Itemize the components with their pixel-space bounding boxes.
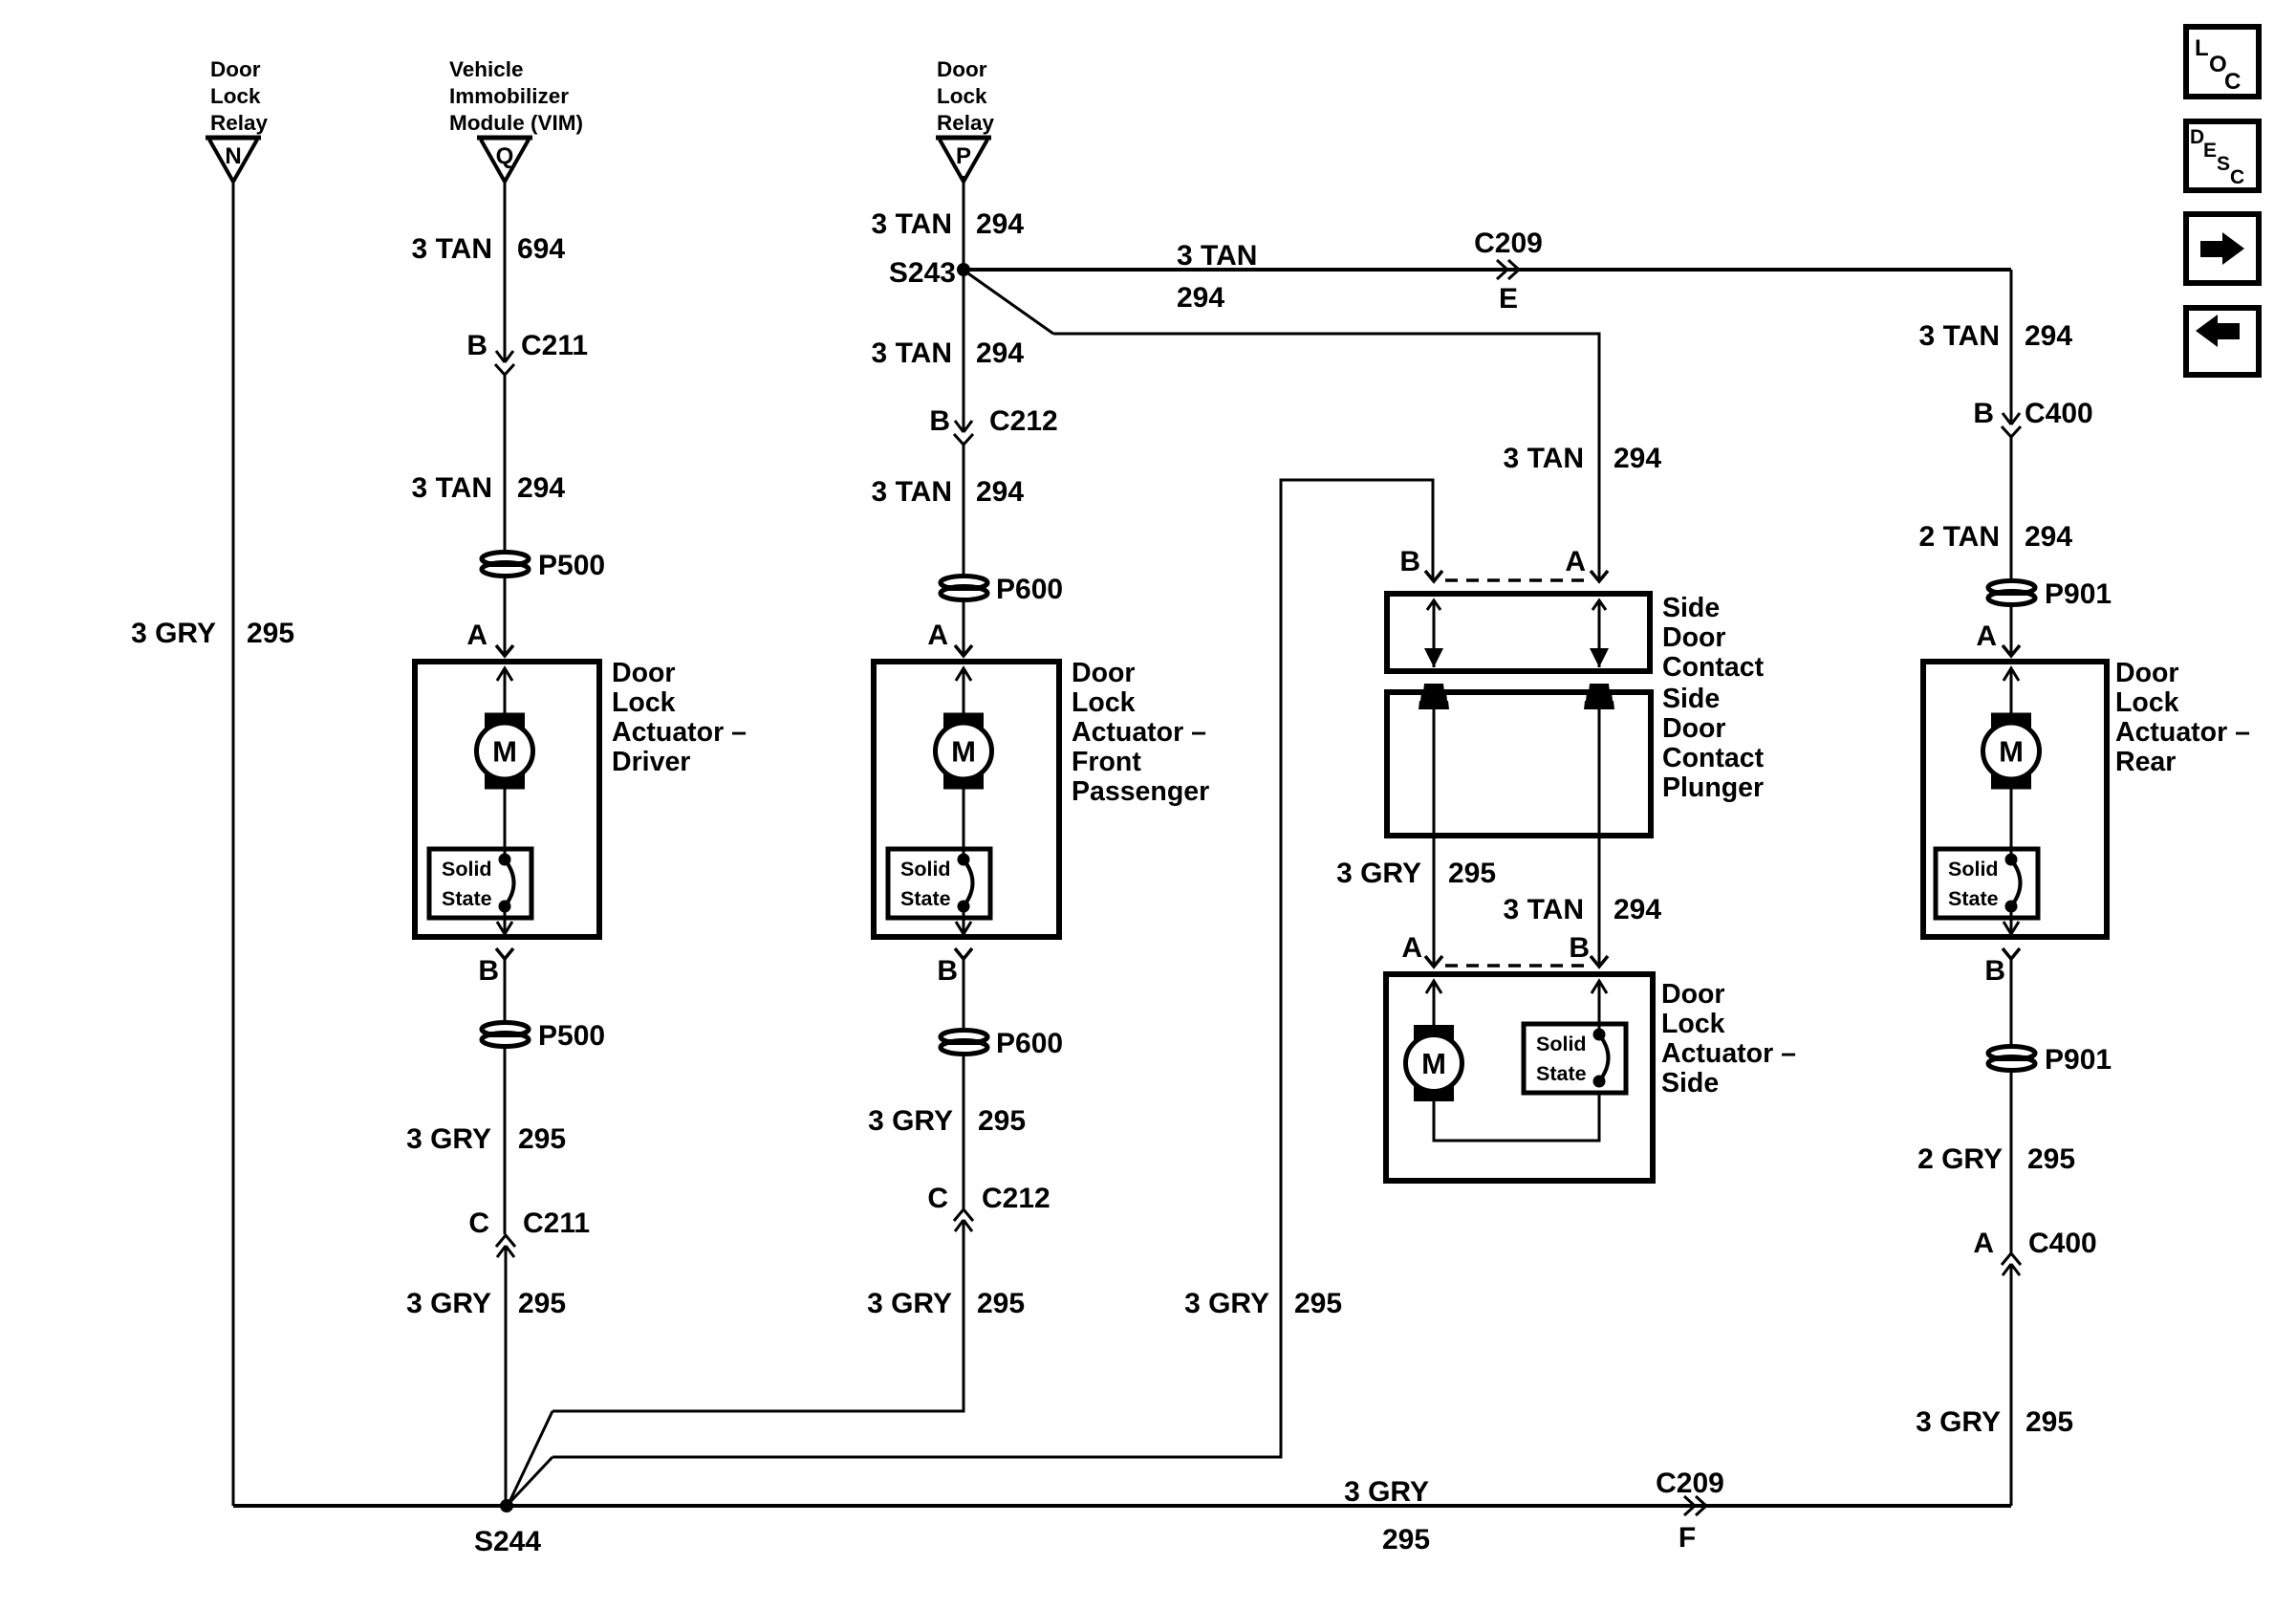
svg-text:3 TAN: 3 TAN [412, 233, 492, 265]
label: Side Door Contact name [1662, 593, 1765, 683]
label: Side Door Contact Plunger name [1662, 684, 1765, 803]
svg-text:Actuator –: Actuator – [1072, 717, 1206, 748]
wire P600 to actuator pin A (passenger) [963, 599, 965, 656]
svg-text:3 GRY: 3 GRY [1336, 858, 1421, 889]
wire side actuator B to solid state [1598, 981, 1601, 1034]
connector C400 pin A inline [2002, 1253, 2021, 1275]
dashed connector line (side door contact) [1445, 578, 1588, 582]
svg-text:Lock: Lock [210, 84, 261, 108]
svg-text:A: A [1973, 1228, 1994, 1259]
svg-text:294: 294 [1614, 443, 1661, 474]
svg-text:3 GRY: 3 GRY [131, 618, 216, 649]
svg-text:P901: P901 [2045, 578, 2112, 610]
wire S243 to C209 E (3 TAN 294) [964, 268, 2011, 272]
svg-text:Door: Door [1072, 658, 1136, 688]
wire bottom trunk (3 GRY 295) to C209 F [233, 1504, 2011, 1508]
wire plunger to side actuator A (3 GRY 295) [1433, 707, 1436, 967]
component box Door Lock Actuator - Rear [1923, 662, 2107, 937]
svg-text:D: D [2190, 126, 2204, 148]
splice S244 [500, 1499, 513, 1512]
svg-text:Rear: Rear [2115, 747, 2176, 777]
svg-text:C212: C212 [989, 405, 1058, 437]
component box Side Door Contact Plunger [1387, 692, 1651, 836]
connector C400 pin B inline [2002, 413, 2021, 437]
wire C212 to P600 (3 TAN 294) [963, 445, 965, 577]
svg-text:P600: P600 [996, 1028, 1063, 1059]
svg-text:3 TAN: 3 TAN [1177, 240, 1257, 272]
svg-text:3 TAN: 3 TAN [1504, 894, 1584, 925]
svg-text:Plunger: Plunger [1662, 772, 1764, 803]
svg-text:694: 694 [517, 233, 565, 265]
pin chevron B side contact [1425, 571, 1442, 581]
svg-text:295: 295 [518, 1288, 566, 1319]
connector C212 pin B inline [954, 421, 973, 445]
svg-text:295: 295 [1294, 1288, 1342, 1319]
svg-text:S: S [2217, 153, 2230, 175]
svg-text:294: 294 [2025, 521, 2072, 553]
svg-text:Door: Door [210, 57, 261, 81]
wire C400 to P901 (2 TAN 294) [2010, 437, 2013, 581]
component box Side Door Contact [1387, 594, 1650, 671]
svg-text:A: A [1565, 546, 1586, 577]
wire Q to C211 (3 TAN 694) [504, 182, 507, 360]
splice S243 [957, 263, 970, 276]
svg-text:3 GRY: 3 GRY [1344, 1476, 1429, 1508]
svg-text:Lock: Lock [1072, 687, 1136, 718]
label: Door Lock Relay (left) [210, 57, 269, 135]
legend box arrow right [2186, 214, 2259, 283]
svg-text:C212: C212 [982, 1183, 1051, 1214]
pin chevron A driver [496, 645, 513, 656]
svg-text:294: 294 [976, 337, 1024, 369]
svg-text:295: 295 [2025, 1406, 2073, 1438]
svg-text:Actuator –: Actuator – [612, 717, 747, 748]
svg-text:P600: P600 [996, 574, 1063, 605]
svg-text:3 GRY: 3 GRY [1184, 1288, 1269, 1319]
svg-text:Side: Side [1662, 593, 1720, 623]
svg-text:3 TAN: 3 TAN [872, 208, 952, 240]
pin chevron A side contact [1591, 571, 1608, 581]
connector P500 (upper) [482, 553, 529, 577]
motor M (Door Lock Actuator - Driver) [477, 713, 533, 790]
svg-text:Door: Door [1662, 713, 1726, 744]
wire side contact pin B loop to S244 (3 GRY 295) [552, 480, 1433, 1457]
connector triangle P (Door Lock Relay) [936, 138, 991, 182]
svg-text:C209: C209 [1474, 228, 1543, 259]
svg-text:Immobilizer: Immobilizer [449, 84, 569, 108]
wire P500 to C211 C (3 GRY 295) [504, 1046, 507, 1234]
component box Door Lock Actuator - Side [1386, 974, 1653, 1181]
wire motor loop to solid state (side actuator) [1434, 1094, 1599, 1141]
label: Door Lock Actuator - Rear name [2115, 658, 2250, 777]
contact arrow right [1590, 600, 1609, 667]
svg-text:A: A [1976, 620, 1997, 652]
wire diagonal into splice S244 (passenger) [509, 1411, 552, 1504]
wire passenger B to P600 lower [963, 959, 965, 1031]
svg-text:Door: Door [1661, 979, 1725, 1010]
svg-text:Door: Door [612, 658, 676, 688]
svg-text:A: A [466, 620, 487, 651]
legend box arrow left [2186, 308, 2259, 375]
pin chevron B side actuator [1591, 956, 1608, 967]
pin chevron B rear [2003, 948, 2020, 959]
legend box DESC [2186, 121, 2259, 190]
svg-text:295: 295 [1382, 1524, 1430, 1556]
wire diagonal from S243 [965, 272, 1053, 334]
connector C209 chevron E [1497, 260, 1519, 279]
svg-text:Passenger: Passenger [1072, 776, 1209, 807]
svg-text:2 TAN: 2 TAN [1919, 521, 2000, 553]
connector triangle Q (VIM) [477, 138, 532, 182]
svg-text:3 GRY: 3 GRY [1916, 1406, 2001, 1438]
svg-text:C: C [468, 1207, 489, 1239]
svg-text:3 TAN: 3 TAN [872, 476, 952, 508]
svg-text:B: B [1984, 955, 2005, 987]
connector P600 (lower) [941, 1031, 987, 1055]
svg-text:Vehicle: Vehicle [449, 57, 524, 81]
wire N vertical (3 GRY 295) [232, 182, 235, 1506]
label: Vehicle Immobilizer Module (VIM) [449, 57, 583, 135]
svg-text:F: F [1679, 1522, 1696, 1554]
wire plunger to side actuator B (3 TAN 294) [1598, 707, 1601, 967]
svg-text:B: B [1569, 932, 1590, 964]
svg-text:3 TAN: 3 TAN [1504, 443, 1584, 474]
pin chevron A passenger [955, 645, 972, 656]
svg-text:C: C [2224, 69, 2241, 95]
svg-text:Q: Q [496, 143, 514, 169]
svg-text:Lock: Lock [612, 687, 676, 718]
motor M (side actuator) [1406, 1025, 1462, 1101]
connector C211 pin B inline [495, 351, 514, 375]
svg-text:B: B [929, 405, 950, 437]
component box Door Lock Actuator - Driver [415, 662, 599, 937]
svg-text:P500: P500 [538, 1020, 605, 1052]
svg-text:Side: Side [1661, 1068, 1719, 1099]
svg-text:E: E [2203, 140, 2217, 162]
solid state switch (Door Lock Actuator - Rear) [1936, 849, 2038, 918]
svg-text:3 GRY: 3 GRY [406, 1288, 491, 1319]
svg-text:A: A [927, 620, 948, 651]
svg-text:294: 294 [2025, 320, 2072, 352]
svg-text:Contact: Contact [1662, 652, 1765, 683]
svg-text:Lock: Lock [1661, 1009, 1725, 1039]
svg-text:295: 295 [1448, 858, 1496, 889]
svg-text:B: B [937, 955, 958, 987]
contact arrow left [1424, 600, 1443, 667]
label: Door Lock Actuator - Side name [1661, 979, 1796, 1099]
connector C211 pin C inline [496, 1235, 515, 1257]
wire trunk to side door contact pin A (3 TAN 294) [1053, 334, 1599, 581]
svg-text:E: E [1499, 283, 1518, 315]
svg-text:C211: C211 [523, 1207, 590, 1239]
connector C212 pin C inline [954, 1209, 973, 1231]
svg-text:C400: C400 [2028, 1228, 2097, 1259]
pin chevron B passenger [955, 948, 972, 959]
wire diagonal into splice S244 (side branch) [508, 1457, 552, 1505]
dashed connector line (side actuator) [1445, 964, 1588, 968]
svg-text:2 GRY: 2 GRY [1917, 1143, 2003, 1175]
svg-text:294: 294 [1614, 894, 1661, 925]
svg-text:294: 294 [976, 476, 1024, 508]
svg-text:P901: P901 [2045, 1044, 2112, 1076]
connector P600 (upper) [941, 577, 987, 600]
plunger contact left [1419, 684, 1449, 709]
svg-text:295: 295 [518, 1123, 566, 1155]
svg-text:3 TAN: 3 TAN [412, 472, 492, 504]
svg-text:Module (VIM): Module (VIM) [449, 111, 583, 135]
connector C209 chevron F [1684, 1496, 1706, 1515]
svg-text:Relay: Relay [937, 111, 995, 135]
svg-text:Actuator –: Actuator – [1661, 1038, 1796, 1069]
svg-text:3 GRY: 3 GRY [868, 1105, 953, 1137]
connector P901 (upper) [1988, 581, 2035, 605]
svg-text:C209: C209 [1656, 1468, 1724, 1499]
wire P500 to actuator pin A [504, 576, 507, 656]
connector P901 (lower) [1988, 1047, 2035, 1071]
svg-text:B: B [1399, 546, 1420, 577]
wire C400 A down to bottom trunk (3 GRY 295) [2010, 1264, 2013, 1506]
svg-text:C: C [2230, 166, 2244, 188]
pin chevron B driver [496, 948, 513, 959]
svg-text:Door: Door [2115, 658, 2179, 688]
svg-text:3 GRY: 3 GRY [867, 1288, 952, 1319]
connector triangle N (Door Lock Relay) [206, 138, 261, 182]
svg-text:Side: Side [1662, 684, 1720, 714]
label: Door Lock Actuator - Front Passenger name [1072, 658, 1209, 807]
svg-text:295: 295 [2027, 1143, 2075, 1175]
svg-text:L: L [2195, 35, 2209, 61]
svg-text:S243: S243 [889, 257, 956, 289]
svg-text:294: 294 [976, 208, 1024, 240]
wire P triangle through S243 to C212 (3 TAN 294) [963, 176, 965, 432]
wire P901 to C400 A (2 GRY 295) [2010, 1070, 2013, 1253]
wire P901 to rear actuator pin A [2010, 604, 2013, 656]
svg-text:P500: P500 [538, 550, 605, 581]
svg-text:B: B [466, 330, 487, 361]
pin chevron A rear [2003, 645, 2020, 656]
svg-text:295: 295 [978, 1105, 1026, 1137]
label: Door Lock Relay (middle) [937, 57, 995, 135]
svg-text:B: B [478, 955, 499, 987]
wire P600 to C212 C (3 GRY 295) [963, 1054, 965, 1208]
wire C209 trunk down to C400 B (3 TAN 294) [2010, 270, 2013, 424]
svg-text:3 TAN: 3 TAN [872, 337, 952, 369]
svg-text:Door: Door [1662, 622, 1726, 653]
svg-text:Front: Front [1072, 747, 1141, 777]
motor M (Door Lock Actuator - Front Passenger) [936, 713, 992, 790]
svg-text:B: B [1973, 398, 1994, 429]
solid state switch (side actuator) [1524, 1024, 1626, 1093]
svg-text:Lock: Lock [2115, 687, 2179, 718]
svg-text:A: A [1401, 932, 1422, 964]
component box Door Lock Actuator - Front Passenger [874, 662, 1059, 937]
wire side actuator A to motor [1433, 981, 1436, 1025]
svg-text:C211: C211 [521, 330, 588, 361]
svg-text:C400: C400 [2025, 398, 2093, 429]
solid state switch (Door Lock Actuator - Front Passenger) [888, 849, 990, 918]
svg-text:3 TAN: 3 TAN [1919, 320, 2000, 352]
solid state switch (Door Lock Actuator - Driver) [429, 849, 531, 918]
wire C211 to P500 (3 TAN 294) [504, 375, 507, 553]
label: Door Lock Actuator - Driver name [612, 658, 747, 777]
svg-text:C: C [927, 1183, 948, 1214]
svg-text:294: 294 [517, 472, 565, 504]
wire rear B to P901 lower [2010, 959, 2013, 1047]
wire driver B to P500 lower [504, 959, 507, 1023]
svg-text:S244: S244 [474, 1526, 541, 1557]
wire C211 C to splice S244 (3 GRY 295) [505, 1246, 508, 1506]
connector P500 (lower) [482, 1023, 529, 1047]
svg-text:Actuator –: Actuator – [2115, 717, 2250, 748]
svg-text:Relay: Relay [210, 111, 269, 135]
svg-text:295: 295 [247, 618, 294, 649]
svg-text:Contact: Contact [1662, 743, 1765, 773]
svg-text:294: 294 [1177, 282, 1224, 314]
wire C212 C down and left to S244 [552, 1220, 964, 1411]
svg-text:3 GRY: 3 GRY [406, 1123, 491, 1155]
svg-text:N: N [225, 143, 241, 169]
svg-text:Driver: Driver [612, 747, 690, 777]
plunger contact right [1584, 684, 1614, 709]
motor M (Door Lock Actuator - Rear) [1983, 713, 2040, 790]
svg-text:Lock: Lock [937, 84, 987, 108]
legend box LOC [2186, 27, 2259, 97]
svg-text:Door: Door [937, 57, 987, 81]
svg-text:P: P [956, 143, 971, 169]
pin chevron A side actuator [1425, 956, 1442, 967]
svg-text:295: 295 [977, 1288, 1025, 1319]
